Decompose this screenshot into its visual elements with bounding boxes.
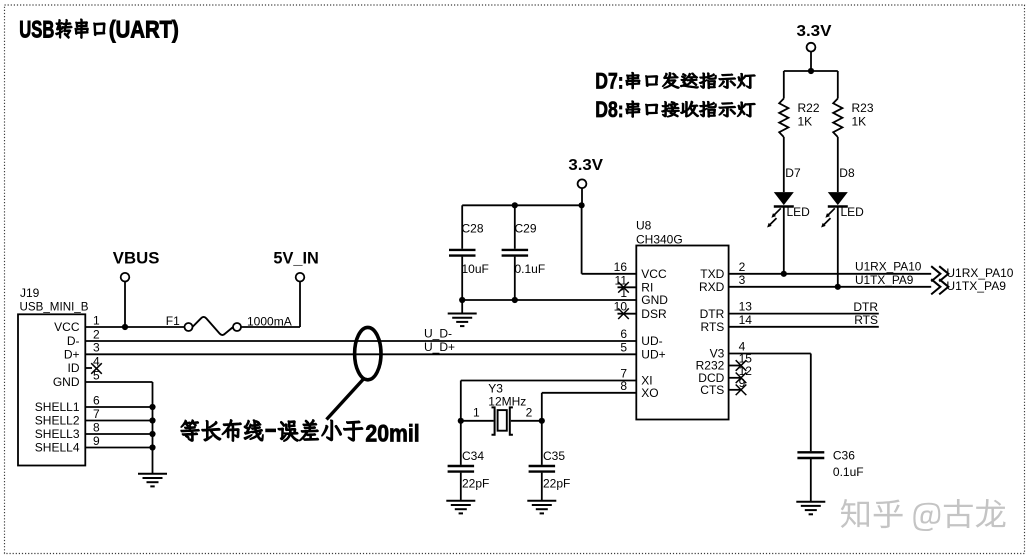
svg-text:LED: LED — [787, 205, 811, 219]
power terminal 3.3V (LEDs) — [797, 23, 832, 71]
svg-text:2: 2 — [526, 406, 533, 420]
svg-text:6: 6 — [93, 393, 100, 407]
svg-text:C35: C35 — [543, 449, 565, 463]
capacitor C28 10uF — [449, 205, 489, 300]
annotation ellipse equal-length — [355, 327, 381, 379]
svg-text:Y3: Y3 — [488, 382, 503, 396]
junction XO/C35 — [539, 418, 545, 424]
svg-text:7: 7 — [93, 407, 100, 421]
power terminal 5V_IN — [273, 248, 318, 327]
ground under C28 — [448, 314, 477, 327]
svg-text:GND: GND — [641, 293, 668, 307]
svg-text:1K: 1K — [798, 115, 813, 129]
capacitor C36 0.1uF — [797, 449, 863, 502]
svg-text:D7:: D7: — [595, 69, 623, 94]
svg-text:GND: GND — [53, 375, 80, 389]
annotation text equal length routing — [181, 420, 420, 448]
svg-text:9: 9 — [93, 434, 100, 448]
svg-text:1: 1 — [473, 406, 480, 420]
LED D8 — [821, 166, 864, 228]
junction XI/C34 — [458, 418, 464, 424]
title text USB to UART — [19, 16, 179, 43]
pin DSR stub no-connect — [618, 313, 637, 315]
svg-text:SHELL2: SHELL2 — [35, 414, 80, 428]
svg-text:3: 3 — [93, 341, 100, 355]
wire to ground — [461, 300, 463, 314]
svg-text:22pF: 22pF — [543, 477, 570, 491]
connector J19 USB_MINI_B — [18, 286, 100, 465]
wire SHELL4 — [85, 447, 153, 449]
svg-text:U1RX_PA10: U1RX_PA10 — [855, 260, 922, 274]
junction 3.3V rail — [808, 68, 814, 74]
svg-text:3: 3 — [739, 273, 746, 287]
svg-text:22pF: 22pF — [462, 477, 489, 491]
svg-text:10uF: 10uF — [462, 262, 489, 276]
wire to R23 — [837, 71, 839, 99]
svg-text:D8:: D8: — [595, 97, 623, 122]
svg-text:3.3V: 3.3V — [797, 23, 832, 40]
svg-text:CTS: CTS — [700, 383, 724, 397]
wire D8 to RXD — [837, 207, 839, 287]
svg-text:CH340G: CH340G — [636, 233, 683, 247]
crystal Y3 12MHz — [473, 382, 533, 435]
svg-text:RTS: RTS — [701, 320, 725, 334]
ground under C36 — [796, 502, 825, 515]
svg-text:U_D-: U_D- — [424, 327, 452, 341]
svg-text:U1TX_PA9: U1TX_PA9 — [855, 273, 914, 287]
wire DTR net — [729, 313, 879, 315]
svg-text:VCC: VCC — [54, 320, 80, 334]
wire V3 to C36 — [729, 353, 811, 355]
svg-text:F1: F1 — [166, 314, 180, 328]
svg-text:5V_IN: 5V_IN — [273, 248, 318, 267]
svg-text:6: 6 — [620, 327, 627, 341]
port U1RX_PA10 — [931, 266, 1014, 281]
svg-text:ID: ID — [68, 361, 80, 375]
junction C28 bottom — [459, 297, 465, 303]
pin R232 stub no-connect — [729, 365, 741, 367]
svg-text:USB: USB — [19, 16, 54, 43]
fuse F1 1000mA — [166, 314, 292, 335]
wire crystal row left — [461, 420, 494, 422]
wire RXD net — [729, 286, 932, 288]
no-connect X on ID — [91, 363, 102, 374]
svg-text:SHELL4: SHELL4 — [35, 441, 80, 455]
svg-text:8: 8 — [93, 420, 100, 434]
wire VCC pin1 to fuse — [85, 326, 185, 328]
svg-text:UD-: UD- — [641, 334, 662, 348]
wire RTS net — [729, 326, 879, 328]
svg-text:VCC: VCC — [641, 267, 667, 281]
wire 3.3V rail to caps — [462, 204, 581, 206]
junction RXD/D8 — [835, 284, 841, 290]
junction SHELL1 — [149, 404, 155, 410]
wire R22 to D7 — [783, 137, 785, 192]
svg-text:C28: C28 — [462, 221, 484, 235]
power terminal VBUS — [113, 248, 160, 327]
note D7 TX indicator — [595, 69, 755, 94]
svg-text:VBUS: VBUS — [113, 248, 160, 267]
svg-text:DTR: DTR — [700, 307, 725, 321]
svg-text:R23: R23 — [852, 101, 874, 115]
svg-text:DSR: DSR — [641, 307, 667, 321]
svg-text:U1TX_PA9: U1TX_PA9 — [946, 279, 1006, 293]
svg-text:14: 14 — [739, 313, 753, 327]
wire 3.3V to VCC pin16 — [581, 205, 583, 273]
svg-text:DTR: DTR — [853, 300, 878, 314]
svg-text:U8: U8 — [636, 219, 652, 233]
wire to R22 — [783, 71, 785, 99]
svg-text:3.3V: 3.3V — [568, 157, 603, 174]
svg-text:D8: D8 — [839, 166, 855, 180]
op-amp U8 CH340G body — [614, 219, 753, 420]
wire LED rail — [784, 70, 838, 72]
power terminal 3.3V (decoupling) — [568, 157, 603, 206]
svg-text:C36: C36 — [833, 449, 855, 463]
svg-text:1: 1 — [93, 313, 100, 327]
watermark zhihu — [841, 499, 1006, 531]
wire XO — [542, 392, 637, 394]
wire fuse to 5V_IN — [241, 326, 300, 328]
svg-text:XO: XO — [641, 386, 658, 400]
junction SHELL3 — [149, 431, 155, 437]
wire D- net U_D- — [85, 340, 636, 342]
svg-text:2: 2 — [93, 327, 100, 341]
wire GND rail to pin1 — [462, 299, 636, 301]
svg-text:TXD: TXD — [700, 267, 724, 281]
wire SHELL2 — [85, 420, 153, 422]
svg-text:UD+: UD+ — [641, 348, 665, 362]
svg-text:(UART): (UART) — [109, 16, 179, 43]
wire ID stub — [85, 367, 92, 369]
resistor R22 1K — [779, 99, 820, 138]
svg-text:SHELL3: SHELL3 — [35, 427, 80, 441]
svg-text:SHELL1: SHELL1 — [35, 400, 80, 414]
wire GND pin5 — [85, 381, 153, 383]
ground under C35 — [527, 501, 556, 514]
junction C29 bottom — [512, 297, 518, 303]
svg-text:D+: D+ — [64, 348, 80, 362]
wire D7 to TXD — [783, 207, 785, 274]
junction TXD/D7 — [781, 271, 787, 277]
pin RI stub no-connect — [618, 286, 637, 288]
wire TXD net — [729, 273, 932, 275]
svg-text:C29: C29 — [515, 221, 537, 235]
svg-text:LED: LED — [841, 205, 865, 219]
svg-text:RTS: RTS — [854, 313, 878, 327]
ground under J19 — [138, 474, 167, 487]
wire R23 to D8 — [837, 137, 839, 192]
wire SHELL3 — [85, 433, 153, 435]
svg-text:0.1uF: 0.1uF — [833, 465, 864, 479]
wire crystal row right — [511, 420, 542, 422]
svg-text:1K: 1K — [852, 115, 867, 129]
junction C29 top — [512, 202, 518, 208]
svg-text:U1RX_PA10: U1RX_PA10 — [946, 266, 1013, 280]
svg-text:J19: J19 — [20, 286, 40, 300]
pin DCD stub no-connect — [729, 377, 741, 379]
annotation pointer line — [327, 379, 364, 420]
pin CTS stub no-connect — [729, 389, 741, 391]
svg-text:5: 5 — [620, 340, 627, 354]
svg-text:U_D+: U_D+ — [424, 340, 455, 354]
wire XI — [461, 380, 637, 382]
svg-text:RXD: RXD — [699, 280, 725, 294]
svg-text:16: 16 — [614, 260, 628, 274]
svg-text:USB_MINI_B: USB_MINI_B — [20, 299, 89, 313]
svg-text:0.1uF: 0.1uF — [515, 262, 546, 276]
capacitor C34 22pF — [448, 421, 490, 501]
svg-text:2: 2 — [739, 260, 746, 274]
LED D7 — [767, 166, 810, 228]
junction SHELL4 — [149, 444, 155, 450]
capacitor C35 22pF — [529, 421, 571, 501]
junction VBUS/VCC — [122, 324, 128, 330]
note D8 RX indicator — [595, 97, 755, 122]
svg-text:13: 13 — [739, 300, 753, 314]
svg-text:R22: R22 — [798, 101, 820, 115]
svg-text:20mil: 20mil — [365, 421, 419, 448]
junction SHELL2 — [149, 417, 155, 423]
junction 3.3V drop — [579, 202, 585, 208]
port U1TX_PA9 — [931, 279, 1006, 294]
capacitor C29 0.1uF — [502, 205, 546, 300]
svg-text:D7: D7 — [785, 166, 801, 180]
resistor R23 1K — [833, 99, 874, 138]
wire SHELL1 — [85, 406, 153, 408]
svg-text:C34: C34 — [462, 449, 484, 463]
ground under C34 — [446, 501, 475, 514]
wire D+ net U_D+ — [85, 353, 636, 355]
svg-text:D-: D- — [67, 334, 80, 348]
